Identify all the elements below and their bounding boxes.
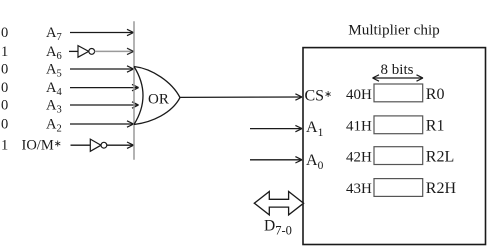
wire IO/M* inverter to input bus: [107, 142, 134, 148]
wire IO/M* to inverter: [71, 144, 91, 146]
wire A0 to chip: [250, 157, 302, 163]
label D7-0: [264, 217, 292, 237]
svg-text:0: 0: [1, 98, 8, 114]
svg-text:41H: 41H: [346, 119, 372, 135]
signal label A2: [46, 117, 62, 135]
register R1 box: [374, 116, 423, 134]
svg-text:0: 0: [1, 25, 8, 41]
svg-text:A7: A7: [46, 25, 62, 43]
svg-text:1: 1: [1, 44, 8, 60]
svg-text:A6: A6: [46, 44, 62, 62]
wire A6 inverter to input bus (grey): [95, 48, 134, 54]
bit value 1 for IO/M*: [1, 138, 8, 154]
svg-text:42H: 42H: [346, 149, 372, 165]
register name R2H: [426, 180, 457, 197]
svg-text:R1: R1: [426, 118, 445, 135]
svg-text:40H: 40H: [346, 87, 372, 103]
svg-text:A4: A4: [46, 80, 62, 98]
bit value 1 for A6: [1, 44, 8, 60]
register name R2L: [426, 148, 454, 165]
bit value 0 for A3: [1, 98, 8, 114]
svg-text:CS∗: CS∗: [305, 87, 333, 104]
wire A3 to OR gate: [70, 102, 139, 108]
address label 40H: [346, 87, 372, 103]
svg-text:A3: A3: [46, 98, 62, 116]
svg-text:1: 1: [1, 138, 8, 154]
pin label CS*: [305, 87, 333, 104]
wire OR output to CS* pin: [180, 94, 302, 100]
register name R0: [426, 86, 445, 103]
svg-text:D7-0: D7-0: [264, 217, 292, 237]
wire A5 to OR gate: [70, 66, 134, 72]
signal label IO/M*: [22, 138, 62, 154]
svg-text:0: 0: [1, 62, 8, 78]
bit value 0 for A5: [1, 62, 8, 78]
register R2H box: [374, 179, 423, 197]
wire A7 to input bus: [70, 29, 134, 35]
bit value 0 for A2: [1, 117, 8, 133]
signal label A4: [46, 80, 62, 98]
wire A2 to OR gate: [70, 121, 134, 127]
svg-text:R2H: R2H: [426, 180, 457, 197]
signal label A3: [46, 98, 62, 116]
inverter on A6: [78, 46, 95, 58]
svg-text:A2: A2: [46, 117, 62, 135]
svg-text:8 bits: 8 bits: [381, 62, 414, 78]
signal label A6: [46, 44, 62, 62]
label Multiplier chip: [348, 22, 440, 39]
register R0 box: [374, 84, 423, 102]
pin label A0: [306, 152, 324, 172]
svg-text:R0: R0: [426, 86, 445, 103]
svg-text:43H: 43H: [346, 181, 372, 197]
address label 43H: [346, 181, 372, 197]
signal label A7: [46, 25, 62, 43]
svg-text:0: 0: [1, 117, 8, 133]
pin label A1: [306, 119, 324, 139]
svg-text:A0: A0: [306, 152, 324, 172]
svg-text:A5: A5: [46, 62, 62, 80]
svg-text:A1: A1: [306, 119, 324, 139]
svg-text:Multiplier chip: Multiplier chip: [348, 22, 440, 39]
svg-text:IO/M∗: IO/M∗: [22, 138, 62, 154]
address label 41H: [346, 119, 372, 135]
width arrow 8 bits: [373, 75, 424, 81]
svg-text:R2L: R2L: [426, 148, 454, 165]
bit value 0 for A7: [1, 25, 8, 41]
svg-text:0: 0: [1, 80, 8, 96]
or-gate: [134, 67, 180, 125]
label 8 bits: [381, 62, 414, 78]
data bus D7-0 block arrow: [254, 192, 303, 215]
address label 42H: [346, 149, 372, 165]
multiplier chip body: [303, 48, 486, 245]
register name R1: [426, 118, 445, 135]
wire A1 to chip: [250, 125, 302, 131]
register R2L box: [374, 147, 423, 165]
svg-text:OR: OR: [148, 92, 169, 108]
wire A4 to OR gate: [70, 84, 139, 90]
wire A6 to inverter: [69, 50, 78, 52]
inverter on IO/M*: [90, 139, 107, 151]
input bus vertical line: [133, 21, 135, 159]
signal label A5: [46, 62, 62, 80]
bit value 0 for A4: [1, 80, 8, 96]
